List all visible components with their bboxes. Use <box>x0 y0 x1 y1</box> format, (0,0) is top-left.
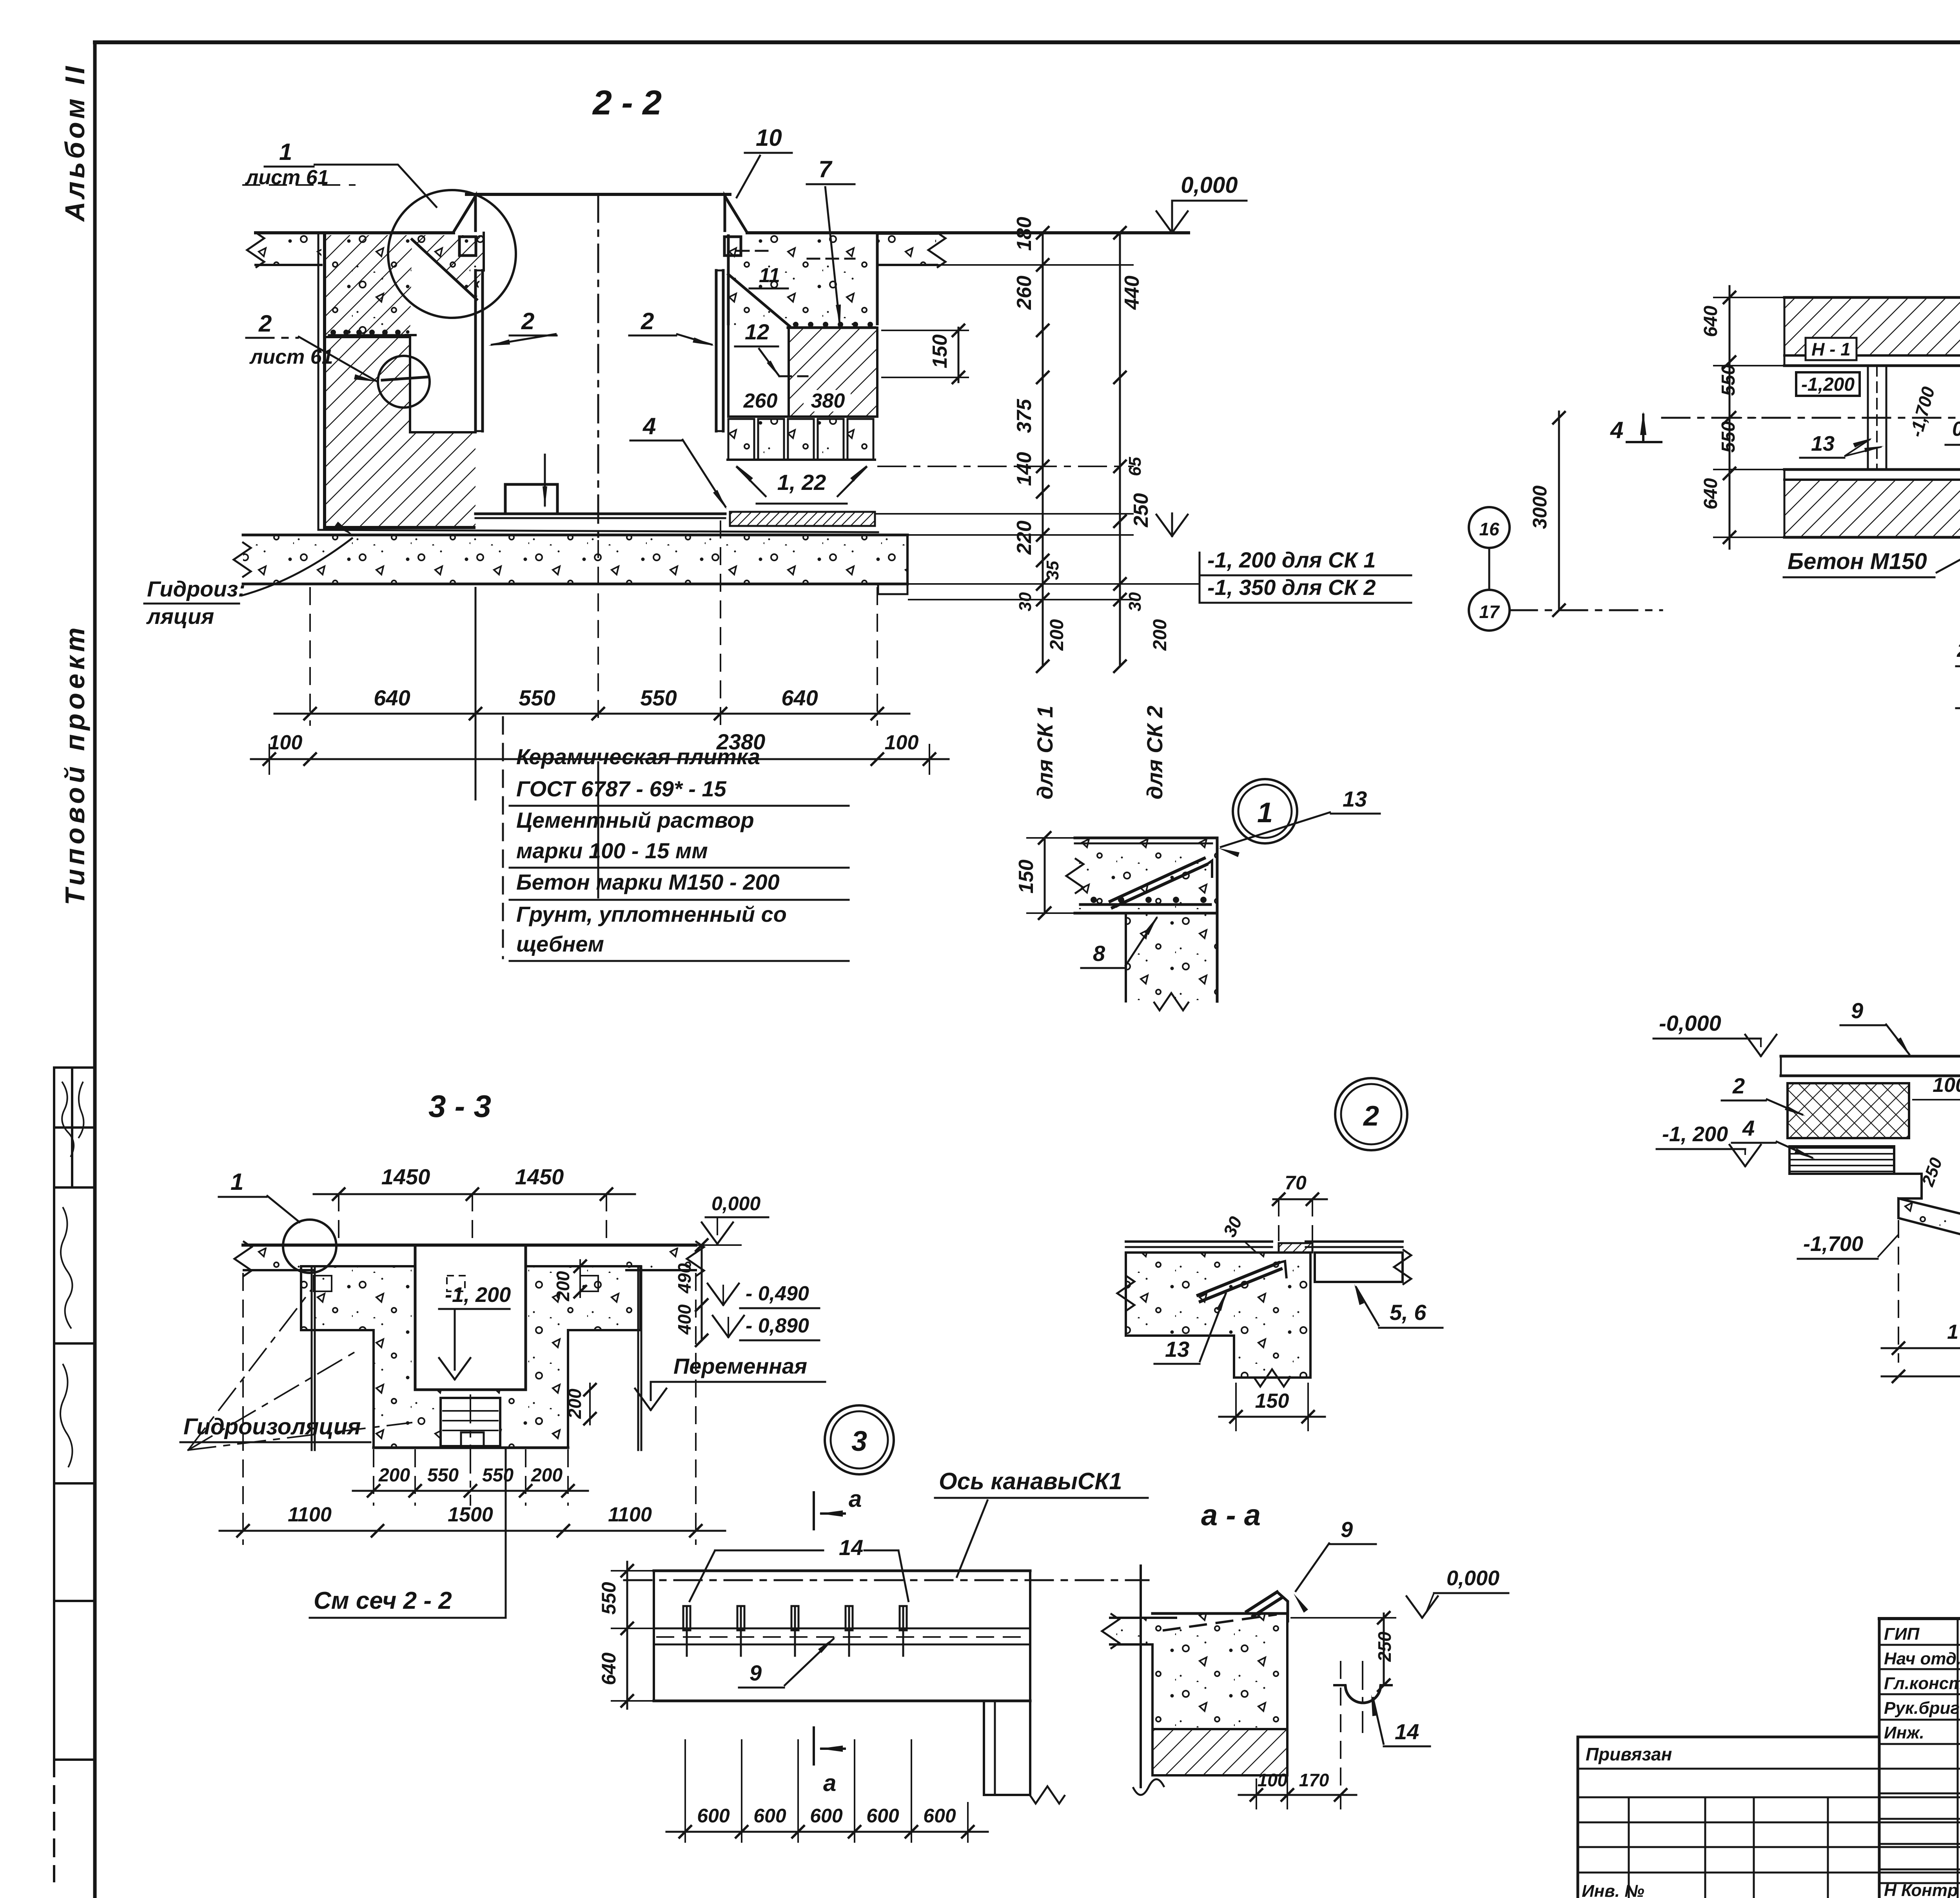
svg-text:Бетон марки М150 - 200: Бетон марки М150 - 200 <box>516 870 780 894</box>
svg-text:600: 600 <box>697 1805 730 1827</box>
svg-text:150: 150 <box>1015 859 1038 894</box>
section a-a mark top <box>813 1492 815 1529</box>
detail 3 band angle lines <box>654 1628 1030 1630</box>
svg-text:260: 260 <box>1013 276 1036 310</box>
svg-text:400: 400 <box>674 1304 695 1335</box>
detail 1 slab concrete <box>1075 838 1217 913</box>
3-3 embedded boxes in shoulders <box>314 1276 332 1291</box>
svg-text:100: 100 <box>1258 1770 1288 1790</box>
detail 2 dim 70 <box>1273 1198 1327 1200</box>
fragment 1 joint lines left <box>1867 366 1869 470</box>
fragment 1 chain 200-2440-200 <box>1956 665 1960 667</box>
svg-text:9: 9 <box>1341 1517 1353 1542</box>
svg-text:0,000: 0,000 <box>1181 172 1238 198</box>
svg-text:640: 640 <box>1700 306 1721 337</box>
screed hatched strip under tiles <box>730 512 875 526</box>
title block signature table grid <box>1879 1617 1960 1620</box>
dimension 150 right wall <box>958 328 960 382</box>
detail 3 bottom chain 600x5 <box>666 1831 988 1833</box>
svg-text:13: 13 <box>1811 432 1835 455</box>
svg-text:щебнем: щебнем <box>516 932 604 956</box>
svg-text:Ось канавыСК1: Ось канавыСК1 <box>939 1468 1122 1494</box>
detail mark circle 2 <box>1335 1078 1407 1150</box>
svg-text:2: 2 <box>641 308 654 334</box>
3-3 waterproofing double lines <box>311 1266 313 1450</box>
svg-text:ГОСТ 6787 - 69* - 15: ГОСТ 6787 - 69* - 15 <box>516 776 727 801</box>
svg-text:Цементный раствор: Цементный раствор <box>516 808 754 832</box>
svg-text:-1,700: -1,700 <box>1803 1232 1863 1256</box>
svg-text:-1, 200 для СК 1: -1, 200 для СК 1 <box>1207 547 1376 572</box>
a-a dims 100 170 <box>1239 1794 1356 1796</box>
3-3 left column concrete <box>374 1330 415 1448</box>
svg-text:-1, 350 для СК 2: -1, 350 для СК 2 <box>1207 575 1376 600</box>
detail callout circle small on left wall <box>378 356 430 408</box>
detail 3 band axis dashdot <box>624 1579 1149 1581</box>
a-a dim 250 <box>1383 1613 1385 1685</box>
svg-text:600: 600 <box>923 1805 956 1827</box>
svg-text:Гл.констр: Гл.констр <box>1884 1674 1960 1693</box>
detail 3 band top line <box>654 1570 1030 1572</box>
svg-text:550: 550 <box>519 685 555 710</box>
svg-text:а: а <box>823 1770 836 1796</box>
svg-text:1: 1 <box>1257 797 1273 828</box>
svg-text:4: 4 <box>1742 1116 1755 1140</box>
svg-text:лист 61: лист 61 <box>245 166 329 189</box>
left margin stamp column handwriting <box>62 1082 74 1157</box>
svg-text:Рук.бриг: Рук.бриг <box>1884 1699 1960 1718</box>
svg-text:Типовой проект: Типовой проект <box>60 624 90 905</box>
svg-text:Альбом II: Альбом II <box>60 63 90 222</box>
svg-text:30: 30 <box>1016 592 1035 611</box>
svg-text:0,020: 0,020 <box>1952 418 1960 441</box>
3-3 dims 490 400 right <box>701 1245 703 1340</box>
svg-text:ГИП: ГИП <box>1884 1624 1920 1644</box>
4-4 chain 1750-400-1750 <box>1882 1347 1960 1349</box>
3-3 bottom base concrete <box>374 1390 568 1448</box>
svg-text:640: 640 <box>598 1652 620 1685</box>
svg-text:3000: 3000 <box>1529 486 1551 529</box>
svg-text:1500: 1500 <box>448 1503 493 1526</box>
detail 1 anchor bar <box>1110 858 1204 901</box>
detail callout circle 1 top left corner <box>388 190 516 318</box>
svg-text:30: 30 <box>1125 592 1145 611</box>
svg-text:8: 8 <box>1093 941 1105 966</box>
note block keramicheskaya plitka <box>502 717 504 958</box>
detail mark circle 1 <box>1233 779 1297 843</box>
svg-text:200: 200 <box>1150 619 1171 651</box>
svg-text:70: 70 <box>1285 1172 1307 1194</box>
svg-text:7: 7 <box>818 156 833 182</box>
svg-text:140: 140 <box>1013 452 1036 486</box>
svg-text:170: 170 <box>1299 1770 1329 1790</box>
foundation step right <box>878 584 907 594</box>
svg-text:220: 220 <box>1013 520 1036 555</box>
waterproofing line on left wall <box>318 234 319 530</box>
svg-text:550: 550 <box>1718 364 1739 396</box>
section a-a mark bottom <box>813 1728 815 1764</box>
4-4 chain 3900 <box>1882 1376 1960 1378</box>
sheet frame top border <box>95 40 1960 44</box>
svg-text:Нач отд.: Нач отд. <box>1884 1649 1960 1668</box>
svg-text:Грунт, уплотненный со: Грунт, уплотненный со <box>516 902 787 926</box>
svg-text:3: 3 <box>851 1426 867 1457</box>
right dimension chain A section 2-2 <box>1042 233 1044 666</box>
detail 3 anchor bolts <box>686 1606 688 1656</box>
svg-text:-1, 200: -1, 200 <box>445 1283 511 1307</box>
svg-text:250: 250 <box>1374 1632 1395 1662</box>
svg-text:-1,200: -1,200 <box>1801 374 1855 395</box>
svg-text:1100: 1100 <box>608 1503 652 1526</box>
svg-text:100: 100 <box>269 731 303 754</box>
svg-text:35: 35 <box>1043 561 1062 580</box>
svg-text:490: 490 <box>674 1263 695 1294</box>
svg-text:Гидроиз:: Гидроиз: <box>147 576 245 601</box>
svg-text:14: 14 <box>1395 1719 1419 1744</box>
3-3 sump box <box>441 1398 500 1446</box>
svg-text:2: 2 <box>258 310 272 337</box>
svg-text:180: 180 <box>1013 217 1036 251</box>
svg-text:1100: 1100 <box>288 1503 332 1526</box>
svg-text:-1, 200: -1, 200 <box>1662 1122 1728 1146</box>
a-a hatched ground strip <box>1152 1729 1287 1775</box>
3-3 top dimension chain 1450 1450 <box>314 1193 635 1195</box>
left floor slab concrete strip <box>257 235 321 265</box>
left curb angle triangle <box>454 196 475 232</box>
privyazan block <box>1578 1736 1879 1738</box>
detail 3 band right edge <box>1029 1571 1031 1701</box>
bottom dimension chain 640-550-550-640 <box>274 713 909 715</box>
svg-text:2: 2 <box>1363 1100 1379 1132</box>
svg-text:200: 200 <box>378 1465 410 1486</box>
svg-text:См сеч 2 - 2: См сеч 2 - 2 <box>314 1587 452 1614</box>
right floor slab concrete strip <box>878 235 936 265</box>
a-a left slab strip <box>1111 1619 1152 1644</box>
svg-text:Инж.: Инж. <box>1884 1723 1924 1742</box>
fragment 1 H-1 labels <box>1806 338 1857 360</box>
svg-text:Бетон М150: Бетон М150 <box>1788 549 1927 574</box>
svg-text:12: 12 <box>745 319 769 344</box>
pit axis dash-dot line <box>597 194 599 537</box>
svg-text:1: 1 <box>230 1169 243 1195</box>
fragment 1 dim 3000 left <box>1558 412 1560 610</box>
axis circles 16 17 <box>1469 507 1510 548</box>
svg-text:3 - 3: 3 - 3 <box>428 1089 491 1124</box>
3-3 floor line <box>243 1244 696 1247</box>
fragment 1 bottom-left wall hatched <box>1784 480 1960 537</box>
svg-text:10: 10 <box>756 125 782 151</box>
svg-text:100: 100 <box>885 731 919 754</box>
svg-text:4: 4 <box>642 413 656 439</box>
svg-text:640: 640 <box>374 685 410 710</box>
left wall hatched masonry <box>325 235 484 337</box>
svg-text:Привязан: Привязан <box>1586 1744 1672 1764</box>
detail 2 dim 150 <box>1219 1416 1325 1418</box>
a-a dashed rebar line <box>1164 1615 1276 1630</box>
svg-text:а - а: а - а <box>1201 1499 1261 1532</box>
svg-text:380: 380 <box>811 390 845 412</box>
svg-text:13: 13 <box>1343 787 1367 811</box>
svg-text:0,000: 0,000 <box>1446 1566 1499 1590</box>
svg-text:200: 200 <box>1047 619 1067 651</box>
3-3 left slab strip <box>244 1247 312 1270</box>
svg-text:- 0,490: - 0,490 <box>746 1282 809 1305</box>
sheet frame left border <box>93 42 97 1898</box>
fragment 1 left dim chain 640-550-550-640 <box>1729 286 1731 549</box>
dimension 380 in right wall <box>804 390 851 412</box>
svg-text:17: 17 <box>1479 602 1500 622</box>
right wall upper concrete zone <box>728 235 877 325</box>
fragment 1 chain 2840 <box>1956 707 1960 709</box>
svg-text:Переменная: Переменная <box>673 1354 807 1378</box>
svg-text:550: 550 <box>482 1465 514 1486</box>
detail 3 band bottom line <box>654 1700 1030 1702</box>
extension lines bottom dims 2-2 <box>309 588 311 725</box>
detail 2 right slab <box>1315 1253 1403 1282</box>
right curb angle box <box>724 237 741 256</box>
3-3 bottom chain 1100-1500-1100 <box>220 1530 725 1532</box>
svg-text:1000: 1000 <box>1933 1074 1960 1097</box>
svg-text:200: 200 <box>1956 639 1960 661</box>
right wall brick zone <box>789 328 877 417</box>
svg-text:Н - 1: Н - 1 <box>1811 339 1851 359</box>
svg-text:260: 260 <box>743 390 778 412</box>
3-3 right column concrete <box>526 1330 568 1448</box>
a-a flashing angle <box>1247 1592 1277 1612</box>
detail mark circle 3 <box>825 1405 894 1474</box>
3-3 right slab strip <box>626 1247 695 1270</box>
3-3 pit inner faces <box>414 1245 417 1390</box>
svg-text:13: 13 <box>1165 1337 1189 1361</box>
4-4 side bench steps <box>1894 1174 1922 1198</box>
svg-text:550: 550 <box>1718 421 1739 453</box>
svg-text:марки 100 - 15 мм: марки 100 - 15 мм <box>516 838 708 863</box>
extension lines to right dimension chains <box>938 264 1133 266</box>
svg-text:2: 2 <box>1732 1073 1745 1098</box>
svg-text:9: 9 <box>1851 998 1863 1023</box>
foundation concrete band <box>243 535 907 584</box>
svg-text:2: 2 <box>521 308 534 334</box>
svg-text:1, 22: 1, 22 <box>777 470 826 495</box>
detail 2 cover plate <box>1279 1243 1312 1253</box>
svg-text:600: 600 <box>753 1805 786 1827</box>
svg-text:Инв. №: Инв. № <box>1582 1882 1644 1898</box>
3-3 left shoulder concrete <box>301 1266 415 1330</box>
4-4 floor slab sloped with sump <box>1898 1198 1960 1295</box>
right curb angle triangle <box>725 196 747 232</box>
4-4 left crosshatch block <box>1788 1083 1909 1138</box>
floor level line left of pit <box>256 231 454 234</box>
fragment 1 top-left wall hatched <box>1784 298 1960 355</box>
detail 2 left concrete block <box>1126 1253 1310 1378</box>
ceramic tile band <box>728 419 754 460</box>
svg-text:200: 200 <box>564 1389 585 1419</box>
a-a gutter axis <box>1362 1662 1363 1732</box>
rebar dashes in right wall top <box>737 250 768 252</box>
right dimension chain B section 2-2 <box>1119 233 1121 666</box>
floor level line right of pit <box>747 231 1189 234</box>
svg-text:150: 150 <box>1255 1390 1289 1412</box>
left pit wall edge steel double line <box>474 270 477 431</box>
fragment 1 trench edges <box>1784 364 1960 367</box>
svg-text:600: 600 <box>810 1805 843 1827</box>
bottom dimension chain 100-2380-100 <box>251 758 949 760</box>
svg-text:640: 640 <box>781 685 818 710</box>
svg-text:- 0,890: - 0,890 <box>746 1314 809 1337</box>
svg-text:9: 9 <box>750 1661 762 1685</box>
detail 3 left dim 550 640 <box>626 1562 628 1709</box>
svg-text:200: 200 <box>531 1465 563 1486</box>
fragment 1 level -1.200 boxes <box>1796 372 1860 396</box>
svg-text:для СК 1: для СК 1 <box>1033 705 1057 799</box>
svg-text:375: 375 <box>1013 399 1036 433</box>
3-3 floor extension line <box>696 1244 741 1246</box>
svg-text:0,000: 0,000 <box>711 1193 760 1215</box>
tile band bottom line <box>728 459 875 461</box>
svg-text:200: 200 <box>553 1271 573 1302</box>
svg-text:150: 150 <box>929 334 951 368</box>
svg-text:14: 14 <box>839 1535 863 1560</box>
3-3 right shoulder concrete <box>526 1266 641 1330</box>
pit floor lines <box>475 513 725 515</box>
svg-text:550: 550 <box>640 685 677 710</box>
svg-text:65: 65 <box>1125 457 1145 476</box>
left margin stamp column verticals <box>53 1068 55 1760</box>
right pit wall edge steel double line <box>715 270 718 431</box>
svg-text:ляция: ляция <box>146 604 214 629</box>
detail 1 support block <box>1126 913 1217 1001</box>
svg-text:550: 550 <box>427 1465 459 1486</box>
svg-text:2 - 2: 2 - 2 <box>592 83 662 122</box>
sump box on pit floor <box>505 484 557 514</box>
right wall haunch slope with rebar dots <box>728 274 789 326</box>
fragment 1 trench axis dashdot <box>1662 417 1960 419</box>
3-3 bottom chain 200-550-550-200 <box>353 1490 588 1492</box>
pit rim line <box>466 193 730 196</box>
svg-text:11: 11 <box>759 264 780 287</box>
svg-text:5, 6: 5, 6 <box>1390 1300 1426 1325</box>
svg-text:для СК 2: для СК 2 <box>1142 705 1167 799</box>
left curb angle box <box>459 237 476 256</box>
level mark 0.000 section 2-2 <box>1171 201 1173 233</box>
detail 1 dim 150 <box>1044 838 1046 913</box>
level variants -1.200/-1.350 <box>1156 515 1172 536</box>
3-3 bottom ragged edge <box>374 1447 568 1449</box>
svg-text:250: 250 <box>1130 493 1152 528</box>
a-a main concrete block <box>1152 1613 1287 1729</box>
svg-text:1450: 1450 <box>381 1164 430 1189</box>
detail 3 band left edge with break <box>653 1571 655 1701</box>
svg-text:4: 4 <box>1610 417 1623 443</box>
svg-text:600: 600 <box>866 1805 899 1827</box>
svg-text:-0,000: -0,000 <box>1659 1011 1721 1035</box>
left wall haunch slope with rebar <box>412 239 477 299</box>
svg-text:16: 16 <box>1479 519 1499 539</box>
svg-text:1: 1 <box>279 139 292 165</box>
4-4 left slab <box>1781 1055 1960 1058</box>
svg-text:Керамическая плитка: Керамическая плитка <box>516 744 760 769</box>
svg-text:а: а <box>849 1486 862 1512</box>
svg-text:Гидроизоляция: Гидроизоляция <box>183 1414 361 1439</box>
svg-text:1450: 1450 <box>515 1164 564 1189</box>
detail 3 corner pillar <box>984 1701 1030 1795</box>
4-4 left plank block <box>1789 1146 1894 1174</box>
a-a gutter semicircle <box>1345 1685 1381 1703</box>
left margin stamp column horizontals <box>54 1066 95 1069</box>
svg-text:1750: 1750 <box>1947 1321 1960 1343</box>
svg-text:440: 440 <box>1121 276 1143 310</box>
detail 1 rebar line with dots <box>1080 903 1210 906</box>
detail 2 anchor bar <box>1198 1263 1279 1295</box>
inner face line left wall <box>483 233 485 270</box>
svg-text:640: 640 <box>1700 478 1721 509</box>
detail 3 right floor edge line <box>1140 1566 1142 1787</box>
detail 2 floor lines <box>1126 1240 1272 1243</box>
svg-text:550: 550 <box>598 1582 620 1615</box>
